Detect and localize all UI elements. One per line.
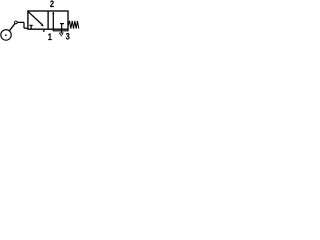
svg-text:1: 1 bbox=[48, 31, 52, 42]
svg-text:2: 2 bbox=[50, 0, 54, 9]
svg-text:3: 3 bbox=[66, 31, 70, 42]
